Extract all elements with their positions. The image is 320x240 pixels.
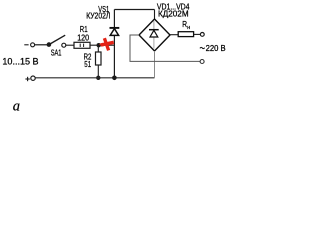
svg-text:120: 120 <box>77 32 89 42</box>
svg-text:10...15 В: 10...15 В <box>2 57 38 67</box>
svg-text:220 В: 220 В <box>206 44 226 53</box>
svg-text:КД202М: КД202М <box>158 10 189 19</box>
svg-text:КУ202Л: КУ202Л <box>86 12 110 21</box>
svg-text:51: 51 <box>84 59 91 69</box>
svg-text:а: а <box>13 99 20 115</box>
svg-text:н: н <box>187 25 190 31</box>
svg-text:SA1: SA1 <box>51 47 62 57</box>
